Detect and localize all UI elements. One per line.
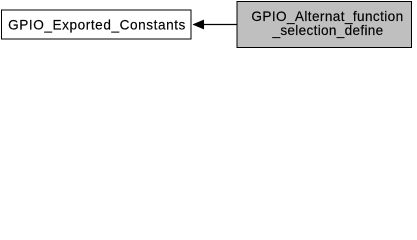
- svg-text:GPIO_Exported_Constants: GPIO_Exported_Constants: [8, 18, 186, 33]
- edge arrow: [193, 20, 237, 29]
- node GPIO_Exported_Constants: [2, 10, 192, 39]
- node GPIO_Alternat_function_selection_define: [237, 2, 412, 48]
- svg-text:_selection_define: _selection_define: [271, 23, 383, 38]
- svg-text:GPIO_Alternat_function: GPIO_Alternat_function: [251, 9, 403, 24]
